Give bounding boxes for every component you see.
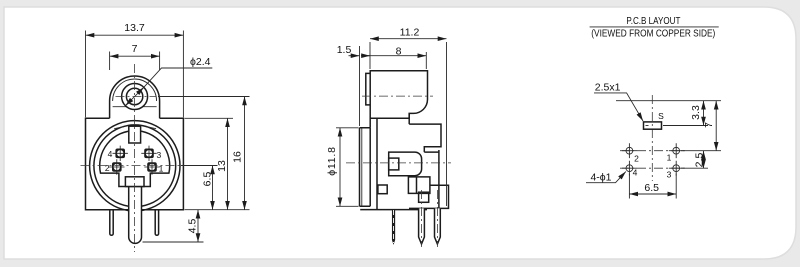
side view: tab (top box) <box>366 71 428 128</box>
front view: shield latch mark left <box>114 127 124 129</box>
front view: horizontal centerline of circle <box>81 165 189 167</box>
side view: front mounting leg <box>392 210 395 244</box>
pcb: dimension 7 <box>703 101 716 151</box>
dimension 16 <box>231 97 244 210</box>
front view: shield inner circle <box>94 125 176 207</box>
side view: rear upper block <box>409 113 441 152</box>
pcb: 2.5x1 label and leader <box>594 82 643 122</box>
front view: left leg <box>110 210 113 236</box>
pcb: row centerline 1 <box>620 150 686 152</box>
svg-text:6.5: 6.5 <box>202 172 214 187</box>
side view: flange bottom small block <box>378 185 387 194</box>
side view: hole centerline <box>362 95 433 97</box>
svg-text:7: 7 <box>132 43 138 55</box>
svg-text:3: 3 <box>667 170 672 180</box>
front view: shield latch mark right <box>146 127 156 129</box>
svg-text:16: 16 <box>231 151 243 163</box>
dimension 6.5 (front) <box>202 166 214 210</box>
dimension 1.5 <box>337 44 360 126</box>
side view: axis centerline <box>346 162 451 164</box>
svg-text:3: 3 <box>157 150 162 160</box>
dimension phi 11.8 <box>326 128 359 207</box>
front view: pin 1 <box>144 159 159 174</box>
dimension 7 (tab width) <box>110 43 160 70</box>
front view: shield outer circle <box>90 121 180 211</box>
pcb: row centerline 2 <box>620 167 686 169</box>
side view: front flange <box>360 128 371 207</box>
front view: vertical centerline <box>134 64 136 252</box>
front view: mounting tab dome <box>110 76 160 118</box>
front view: bottom slot <box>125 177 144 187</box>
pcb: hole 2 <box>622 143 637 158</box>
svg-text:8: 8 <box>396 45 402 57</box>
side view: receptacle barrel <box>389 152 422 176</box>
dimension phi 2.4 leader <box>125 56 212 106</box>
svg-text:2: 2 <box>634 154 639 164</box>
svg-text:13: 13 <box>216 160 228 172</box>
front view: tab hole outer circle <box>122 84 148 110</box>
svg-text:ϕ11.8: ϕ11.8 <box>326 146 338 176</box>
dimension 11.2 <box>370 26 447 206</box>
dimension 13.7 <box>86 22 184 117</box>
front view: horizontal centerline of tab hole <box>116 96 157 98</box>
svg-text:4: 4 <box>108 149 113 159</box>
side view: rear pin 2 <box>435 208 441 244</box>
pcb: right extension lines <box>663 126 721 169</box>
front view: center leg <box>129 187 142 244</box>
pcb: hole 3 <box>669 161 684 176</box>
pcb: hole 1 <box>669 143 684 158</box>
svg-text:P.C.B LAYOUT: P.C.B LAYOUT <box>626 15 680 27</box>
side view: rear mid block <box>424 150 439 208</box>
pcb: dimension 2.5 <box>693 151 705 169</box>
front view: body rectangle <box>86 118 184 209</box>
front view: pin 4 <box>113 146 128 161</box>
svg-text:4.5: 4.5 <box>186 219 198 234</box>
svg-text:13.7: 13.7 <box>124 22 145 34</box>
front view: pin 3 <box>141 146 156 161</box>
side view: rear pin 1 <box>419 208 425 244</box>
right side extension lines <box>143 97 250 243</box>
svg-text:(VIEWED FROM COPPER SIDE): (VIEWED FROM COPPER SIDE) <box>591 27 715 39</box>
svg-text:S: S <box>658 111 664 121</box>
svg-text:11.2: 11.2 <box>400 26 420 38</box>
svg-text:1: 1 <box>159 164 164 174</box>
pcb: top board edge line <box>616 100 721 102</box>
pcb: 4-phi1 label and leader <box>586 172 626 184</box>
svg-text:ϕ2.4: ϕ2.4 <box>190 56 211 68</box>
side view: main body front <box>370 118 409 209</box>
svg-text:3.3: 3.3 <box>690 105 702 120</box>
dimension 13 <box>216 118 228 209</box>
svg-text:2.5: 2.5 <box>693 153 705 168</box>
pcb: dimension 6.5 <box>629 174 676 199</box>
front view: insulator face outline <box>100 131 170 187</box>
side view: body bottom line <box>360 209 427 211</box>
front view: top key notch <box>129 126 141 143</box>
svg-text:4: 4 <box>633 168 638 178</box>
svg-text:7: 7 <box>703 122 715 128</box>
title underline <box>590 26 719 28</box>
pcb: S pad <box>644 111 665 129</box>
front view: pin 2 <box>109 159 124 174</box>
front view: tab hole inner circle (phi 2.4) <box>126 88 142 104</box>
svg-text:1.5: 1.5 <box>337 44 352 56</box>
pcb: vertical centerline <box>651 95 653 181</box>
pcb: dimension 3.3 <box>690 101 704 126</box>
svg-text:2.5x1: 2.5x1 <box>595 82 621 94</box>
svg-text:1: 1 <box>667 153 672 163</box>
dimension 4.5 <box>186 210 198 242</box>
front view: right leg <box>155 210 158 236</box>
side view: lower blocks <box>408 177 430 194</box>
pcb: hole 4 <box>622 161 637 176</box>
side view: rear bottom bracket <box>409 185 449 208</box>
dimension 8 <box>361 45 426 69</box>
side view: pin centerlines <box>422 190 438 247</box>
svg-text:6.5: 6.5 <box>644 182 659 194</box>
svg-text:2: 2 <box>105 163 110 173</box>
tab chord line <box>113 106 157 108</box>
svg-text:4-ϕ1: 4-ϕ1 <box>590 172 611 184</box>
